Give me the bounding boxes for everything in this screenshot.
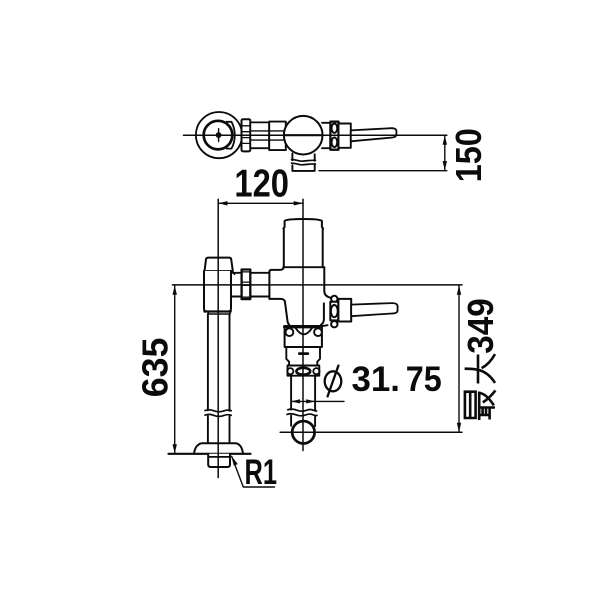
- valve lower right edge: [321, 303, 324, 325]
- dim phi arrows: [291, 399, 300, 403]
- shoulder fillet tick: [232, 271, 234, 274]
- valve cap: [283, 219, 323, 267]
- svg-text:R1: R1: [245, 453, 278, 492]
- stop valve cap: [205, 258, 233, 271]
- flange base line: [169, 453, 251, 455]
- section B tapered: [286, 347, 320, 366]
- valve right edge: [324, 267, 330, 297]
- slot: [298, 352, 309, 355]
- sphere equator: [284, 134, 322, 136]
- body bottom edge: [204, 310, 230, 312]
- small nut middle ellipse bold: [296, 368, 310, 375]
- flange spigot: [208, 454, 230, 467]
- phi symbol ellipse: [325, 371, 342, 391]
- hex nut behind inner circle: [227, 122, 235, 149]
- dim 349 arrows: [457, 285, 461, 294]
- body block: [269, 122, 286, 151]
- dim 150 line: [444, 136, 446, 171]
- R1 leader: [232, 456, 275, 487]
- center tick vertical: [218, 129, 220, 142]
- spud nut right ball: [314, 328, 322, 336]
- spud nut top bold line: [285, 325, 320, 328]
- valve left inlet block: [269, 267, 283, 299]
- kanji 大: [465, 354, 495, 383]
- dim phi line: [291, 400, 344, 402]
- dim 635 line: [174, 285, 176, 453]
- left pipe walls lower: [208, 416, 230, 443]
- left pipe walls upper: [208, 314, 230, 411]
- lower pipe walls lower: [291, 416, 315, 426]
- handle socket: [339, 124, 351, 148]
- supply horizontal centerline: [172, 284, 462, 286]
- svg-text:120: 120: [234, 163, 289, 206]
- small nut: [288, 366, 320, 376]
- valve bottom left outline with taper: [269, 299, 289, 325]
- handle nut bottom ball: [331, 321, 337, 327]
- top view centerline: [184, 134, 447, 136]
- dim 120 line: [218, 202, 303, 204]
- left pipe centerline: [217, 199, 219, 477]
- knurl lines: [242, 126, 251, 144]
- stop valve shoulder line: [205, 270, 233, 272]
- collar under body: [208, 312, 230, 315]
- dim 349 line: [458, 285, 460, 432]
- dim 635 arrows: [173, 285, 177, 294]
- pipe end circle horizontal line / dim extension: [280, 431, 462, 433]
- collar between sphere and nut: [322, 123, 330, 148]
- connector to handle boss: [319, 325, 327, 326]
- handle nut ellipse: [331, 305, 338, 317]
- cylinder section: [250, 122, 269, 148]
- handle rod front: [351, 303, 397, 316]
- handle nut top ball: [331, 296, 337, 302]
- svg-text:75: 75: [406, 360, 442, 399]
- coupling nut right (with balls): [330, 122, 338, 150]
- kanji 最: [465, 390, 496, 420]
- phi symbol stroke: [328, 366, 339, 397]
- handle nut body: [330, 302, 338, 321]
- inner valve circle (bold): [204, 121, 233, 150]
- R1 leader arrowhead: [231, 456, 238, 466]
- outer escutcheon circle: [196, 112, 242, 158]
- spud nut left ball: [286, 328, 294, 336]
- connecting nut bands: [242, 272, 251, 297]
- svg-text:31.: 31.: [352, 360, 401, 399]
- outlet below sphere: [292, 153, 314, 171]
- knurled coupling nut: [242, 119, 251, 151]
- flush valve centerline: [302, 199, 304, 450]
- connecting nut: [242, 270, 251, 300]
- spud nut middle arc: [296, 328, 313, 334]
- bore lines: [251, 131, 287, 140]
- dim 150 bottom extension: [319, 170, 447, 172]
- lower pipe break: [288, 409, 317, 411]
- dim 150 arrows: [443, 136, 447, 145]
- pipe end circle bold: [292, 421, 314, 443]
- spigot band: [209, 456, 229, 458]
- spud nut body: [285, 327, 322, 347]
- floor flange dome: [194, 443, 243, 454]
- left pipe break: [205, 410, 231, 412]
- center dot: [216, 132, 222, 138]
- lower pipe walls upper: [291, 376, 315, 411]
- dim 120 arrows: [218, 201, 227, 205]
- svg-text:349: 349: [460, 298, 501, 354]
- dim text 150 (rotated): [448, 128, 489, 182]
- small nut left ball: [287, 368, 293, 374]
- valve shoulder line: [283, 266, 324, 268]
- stop valve body: [204, 271, 231, 312]
- sphere: [284, 116, 323, 155]
- svg-text:150: 150: [448, 128, 489, 182]
- connecting pipe: [231, 273, 269, 297]
- dim text 635 (rotated): [135, 338, 176, 398]
- small nut right ball: [313, 368, 319, 374]
- outlet break wavy lines: [292, 160, 316, 162]
- svg-text:635: 635: [135, 338, 176, 398]
- handle socket front: [338, 299, 351, 322]
- handle rod: [351, 128, 397, 141]
- dim text 最大349 (rotated): [460, 298, 501, 420]
